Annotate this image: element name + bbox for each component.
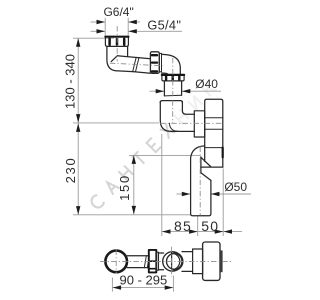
- elbow E2 outer wall: [162, 54, 181, 73]
- elbow E3 inner bend arc: [169, 123, 178, 131]
- centreline outlet tube vertical: [199, 147, 201, 216]
- ring elbow outer circle: [163, 252, 182, 271]
- trap body joint lines: [205, 118, 223, 148]
- dim 150 vertical line: [133, 155, 135, 214]
- dim 130-340 vertical line: [77, 38, 79, 122]
- union nut G5/4 middle body: [150, 52, 159, 74]
- outlet tube Ø50 outline: [191, 146, 211, 216]
- union nut G5/4 ribs: [152, 55, 157, 71]
- sloped pipe bottom edge: [133, 72, 151, 74]
- pipe P1: [127, 256, 149, 268]
- outlet tube right upper profile: [201, 157, 211, 181]
- dim G6/4 line: [91, 21, 105, 23]
- sloped pipe top edge: [117, 56, 150, 59]
- ring elbow crescent arc: [174, 252, 183, 270]
- ring elbow inner circle: [167, 254, 183, 270]
- Ø50 arrows: [182, 192, 191, 196]
- inlet circle: [105, 251, 127, 273]
- union nut N3 top bar: [162, 74, 184, 76]
- elbow E1 right edge: [127, 46, 129, 56]
- centreline inlet vertical: [116, 26, 118, 62]
- trap body right dark segment: [222, 148, 224, 158]
- collar union to body: [194, 111, 204, 137]
- Ø40 arrows: [156, 89, 165, 93]
- elbow E3 socket top: [160, 101, 182, 103]
- elbow E3 outer wall: [160, 102, 194, 132]
- elbow E3 inner wall: [182, 102, 194, 115]
- elbow E2 inner wall: [162, 73, 169, 75]
- svg-text:G6/4": G6/4": [103, 5, 133, 19]
- pipe P3: [182, 252, 193, 272]
- union nut N4: [149, 250, 157, 273]
- wall flange dark: [220, 250, 223, 272]
- svg-text:150: 150: [117, 174, 132, 201]
- centreline socket vertical: [172, 100, 174, 123]
- body rear: [203, 242, 220, 280]
- union nut N4 bars: [149, 261, 157, 269]
- centrelines bottom view: [100, 247, 231, 277]
- union nut G6/4 top bar: [105, 36, 128, 38]
- dimension texts: [103, 5, 247, 194]
- 85/50 arrows: [162, 229, 171, 233]
- G5/4 arrows: [97, 29, 106, 33]
- union nut G6/4 ribs: [110, 39, 125, 45]
- centreline sloped pipe: [110, 63, 163, 65]
- chain dim 85/50 extension lines: [161, 134, 163, 236]
- elbow E1 miter line: [111, 56, 117, 62]
- dim Ø40 line: [150, 90, 165, 92]
- union nut N3 body: [162, 75, 184, 81]
- union nut G6/4 body: [105, 37, 128, 47]
- centreline elbow E2 vertical: [172, 58, 174, 96]
- centrelines main view: [110, 26, 223, 215]
- 230 arrows: [76, 123, 80, 131]
- svg-text:Ø50: Ø50: [224, 180, 247, 194]
- trap body bottom edge: [201, 166, 223, 168]
- union nut N3 ribs: [166, 76, 179, 80]
- arrowheads: [76, 20, 232, 290]
- svg-text:G5/4": G5/4": [147, 17, 181, 32]
- dim 90-295 extension lines: [111, 278, 113, 292]
- ring elbow vertical edge: [171, 252, 173, 271]
- centreline horizontal outlet: [160, 122, 223, 124]
- svg-text:130 - 340: 130 - 340: [63, 54, 78, 109]
- extension centre height line: [73, 122, 159, 124]
- svg-text:50: 50: [201, 218, 219, 234]
- trap body outline: [205, 99, 223, 167]
- centreline circle vertical: [115, 250, 117, 274]
- pipe joint ticks: [133, 57, 139, 71]
- pipe P2: [159, 253, 164, 270]
- svg-text:85: 85: [174, 218, 192, 234]
- centreline ring vertical: [171, 247, 173, 277]
- centreline bottom horizontal: [100, 260, 231, 262]
- dim 230 vertical line: [77, 123, 79, 214]
- elbow E1 outer wall: [107, 46, 133, 71]
- pipe Ø40 cut end: [164, 94, 181, 97]
- dim G6/4 extension lines: [104, 18, 106, 37]
- 150 arrows: [132, 155, 136, 164]
- G6/4 arrows: [97, 20, 106, 24]
- vertical pipe Ø40: [164, 81, 181, 96]
- svg-text:90 - 295: 90 - 295: [120, 272, 168, 287]
- 90-295 arrows: [113, 285, 122, 289]
- svg-text:230: 230: [63, 157, 78, 184]
- socket rear: [193, 249, 203, 274]
- dim G5/4 line: [91, 30, 105, 32]
- pipe P1 joint ticks: [144, 256, 149, 268]
- union nut N4 flange: [156, 252, 158, 270]
- watermark SANTEH diagonal: [89, 81, 217, 210]
- chain dim 85/50 line: [162, 231, 242, 233]
- dim Ø50 line: [177, 193, 191, 195]
- union nut G5/4 flange: [159, 53, 161, 71]
- svg-text:Ø40: Ø40: [195, 77, 218, 91]
- trap body corner cut: [201, 157, 211, 166]
- dim 90-295 line: [112, 287, 173, 289]
- 130-340 arrows: [76, 38, 80, 47]
